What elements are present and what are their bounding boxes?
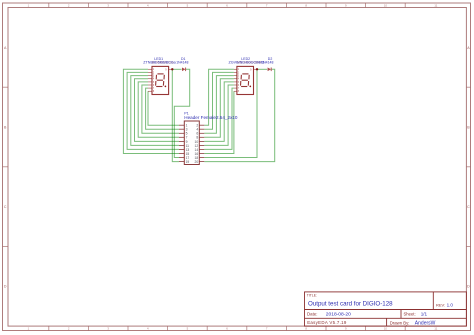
svg-text:Output test card for DIGIO-128: Output test card for DIGIO-128	[308, 301, 393, 308]
wire LED2 pin1 to P1 pin2	[204, 69, 234, 125]
wire LED1 common to D1 anode	[172, 68, 181, 70]
svg-text:EasyEDA V5.7.19: EasyEDA V5.7.19	[307, 320, 347, 325]
border zone ticks bottom	[49, 326, 405, 330]
border zone ticks right	[466, 87, 470, 246]
zone numbers bottom	[28, 327, 438, 331]
wire LED1 pin1 to P1 pin15	[123, 69, 179, 153]
border zone ticks left	[3, 87, 9, 246]
wire LED2 pin6 to P1 pin12	[204, 85, 234, 145]
wire LED2 common to D2 anode	[257, 68, 267, 70]
svg-text:10: 10	[384, 4, 388, 8]
7seg display LED2 body	[237, 66, 254, 94]
wire LED1 pin3 to P1 pin11	[131, 76, 179, 146]
wire LED2 pin2 to P1 pin4	[204, 72, 234, 129]
svg-text:C: C	[467, 205, 470, 209]
border zone ticks top	[49, 3, 405, 8]
svg-text:B-5KB/BCGa: B-5KB/BCGa	[152, 61, 175, 65]
svg-text:1N4148: 1N4148	[176, 61, 188, 65]
svg-text:Drawn By:: Drawn By:	[390, 320, 410, 325]
svg-text:1/1: 1/1	[421, 312, 428, 317]
junction LED2 common	[256, 68, 258, 70]
wire LED2 pin3 to P1 pin6	[204, 76, 234, 134]
svg-text:19: 19	[186, 160, 190, 164]
wire LED1 pin6 to P1 pin5	[142, 85, 179, 133]
7seg display LED1 pins left	[148, 69, 152, 91]
svg-text:11: 11	[434, 327, 437, 331]
svg-text:D: D	[467, 285, 470, 289]
svg-text:AndersW: AndersW	[415, 320, 436, 326]
zone letters left	[4, 46, 7, 289]
wire LED2 pin8 to P1 pin16	[204, 91, 234, 153]
zone letters right	[467, 46, 470, 289]
svg-text:Header Female2.54_2x10: Header Female2.54_2x10	[184, 115, 238, 120]
wire LED1 pin4 to P1 pin9	[135, 79, 180, 142]
wire LED1 pin2 to P1 pin13	[127, 72, 179, 149]
title block frame	[305, 292, 467, 326]
connector P1 body	[184, 121, 199, 165]
svg-text:20: 20	[195, 160, 199, 164]
7seg display LED2 pin right	[254, 68, 258, 70]
wire LED1 pin5 to P1 pin7	[138, 82, 179, 137]
7seg display LED1 pin right	[169, 68, 173, 70]
svg-text:TITLE:: TITLE:	[307, 293, 317, 297]
svg-text:1N4148: 1N4148	[261, 61, 273, 65]
wire LED2 common to P1 pin18	[204, 69, 257, 157]
7seg display LED2 pins left	[234, 69, 237, 91]
wire LED1 pin8 to P1 pin1	[148, 91, 179, 125]
connector P1 pins left	[179, 125, 184, 161]
7seg display LED1 pin numbers	[153, 69, 167, 93]
connector P1 pins right	[199, 125, 204, 161]
svg-text:Date:: Date:	[307, 311, 318, 316]
wire LED1 common to P1 pin19	[172, 69, 179, 161]
wire LED2 pin4 to P1 pin8	[204, 79, 234, 138]
wire LED1 pin7 to P1 pin3	[146, 88, 179, 129]
svg-text:2018-08-20: 2018-08-20	[326, 311, 351, 317]
svg-text:D: D	[4, 285, 7, 289]
zone numbers top	[28, 4, 438, 8]
svg-text:1.0: 1.0	[447, 302, 454, 307]
svg-text:10: 10	[384, 327, 388, 331]
svg-text:Sheet:: Sheet:	[404, 312, 416, 317]
svg-text:C: C	[4, 205, 7, 209]
svg-text:REV:: REV:	[436, 302, 445, 307]
7seg display LED2 pin numbers	[238, 69, 252, 93]
diode D2	[268, 68, 272, 72]
junction LED1 common	[171, 68, 173, 70]
wire D2 cathode to P1 pin20	[204, 69, 274, 161]
7seg display LED2 digit 8	[241, 74, 250, 87]
7seg display LED1 body	[152, 66, 169, 94]
7seg display LED1 digit 8	[156, 74, 165, 87]
7seg display LED1 decimal point	[165, 86, 167, 88]
svg-text:11: 11	[434, 4, 437, 8]
wire LED2 pin5 to P1 pin10	[204, 82, 234, 141]
svg-text:ND-B0GC0841: ND-B0GC0841	[237, 61, 262, 65]
wire LED2 pin7 to P1 pin14	[204, 88, 234, 149]
wire D1 cathode to P1 pin17	[174, 69, 189, 157]
7seg display LED2 decimal point	[249, 86, 251, 88]
connector P1 pin numbers even	[195, 124, 199, 164]
diode D1	[182, 68, 186, 72]
connector P1 pin numbers odd	[186, 124, 190, 164]
